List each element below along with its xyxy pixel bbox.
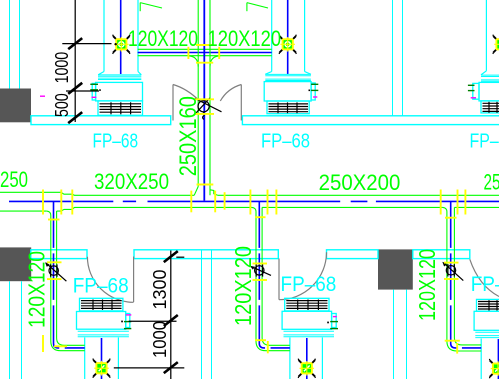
svg-text:1000: 1000 bbox=[150, 321, 170, 358]
wall bottom-right pair below column bbox=[394, 290, 407, 379]
FCU U4 discharge duct bbox=[85, 338, 119, 379]
door top double leaf left bbox=[173, 85, 200, 121]
dimension text 1300 bbox=[150, 270, 170, 310]
diffuser A6 bottom-right clipped bbox=[490, 359, 499, 378]
FCU U6 bottom-right coil bbox=[477, 299, 499, 311]
FCU U3 body bbox=[473, 82, 499, 113]
svg-text:1000: 1000 bbox=[52, 52, 72, 84]
FCU U4 bottom-left coil bbox=[80, 298, 123, 311]
svg-text:320X250: 320X250 bbox=[94, 169, 169, 194]
label FP-68 top 3 clipped bbox=[470, 129, 499, 152]
branch B2 center line bbox=[259, 201, 290, 348]
svg-text:120X120: 120X120 bbox=[414, 249, 440, 321]
label 120X120 rotated right bbox=[414, 249, 440, 321]
pipe crossing ticks yellow elbows bbox=[43, 335, 460, 354]
dimension ticks V1 bbox=[68, 38, 82, 123]
wall band bottom segment 4 bbox=[413, 250, 470, 259]
FCU U2 body bbox=[264, 82, 315, 114]
leader flag 1 bbox=[140, 3, 162, 12]
FCU U3 coil hatch bbox=[483, 102, 499, 113]
FCU U3 pipe stubs bbox=[468, 85, 476, 98]
FCU U3 plenum lines bbox=[481, 75, 499, 81]
label 320X250 bbox=[94, 169, 169, 194]
FCU U4 coil hatch bbox=[81, 300, 122, 311]
door top double leaf right bbox=[220, 85, 241, 121]
damper D2 on branch B1 bbox=[45, 262, 66, 281]
wall band top-right segment bbox=[242, 116, 499, 125]
diffuser A2 top-middle bbox=[279, 35, 296, 54]
wall band top-left segment bbox=[31, 116, 171, 125]
FCU U6 body bbox=[474, 311, 499, 330]
column C3 bottom-right bbox=[378, 249, 413, 289]
duct main center line bbox=[9, 200, 499, 202]
label 250 left bbox=[0, 167, 28, 192]
pipe crossing ticks yellow main duct branch 1 bbox=[43, 190, 72, 220]
diffuser A5 bottom-middle bbox=[298, 359, 315, 378]
leader flag 2 bbox=[247, 3, 268, 12]
pipe crossing ticks yellow riser junction bbox=[191, 185, 224, 213]
pipe crossing ticks yellow top junction bbox=[188, 45, 219, 63]
duct main lower bottom edge bbox=[0, 207, 499, 211]
FCU U5 pipe stubs bbox=[327, 317, 338, 329]
label 120X120 rotated middle bbox=[230, 246, 256, 326]
svg-text:120X120: 120X120 bbox=[128, 26, 198, 51]
label 120X120 second bbox=[208, 26, 282, 51]
FCU U4 plenum lines bbox=[78, 331, 129, 337]
FCU U6 coil hatch bbox=[478, 300, 499, 310]
svg-text:250X160: 250X160 bbox=[175, 96, 202, 176]
label FP-68 top 2 bbox=[261, 129, 310, 152]
dimension line V2 bbox=[114, 251, 185, 379]
stray magenta mark bbox=[40, 95, 45, 97]
FCU U4 body bbox=[77, 312, 130, 330]
FCU U1 plenum lines bbox=[98, 75, 141, 80]
svg-text:FP–68: FP–68 bbox=[471, 273, 499, 296]
svg-text:1300: 1300 bbox=[150, 270, 170, 310]
FCU U2 center line bbox=[287, 0, 289, 74]
wall mid-right top pair bbox=[393, 0, 403, 116]
wall band bottom segment 3 bbox=[327, 250, 379, 259]
damper D4 on branch B3 bbox=[442, 262, 463, 281]
label FP-68 bottom 2 bbox=[281, 273, 337, 296]
duct vertical riser 250X160 bbox=[188, 0, 221, 195]
svg-text:FP–68: FP–68 bbox=[261, 129, 310, 152]
duct main supply top horizontal bbox=[138, 49, 272, 55]
FCU U5 coil hatch bbox=[286, 300, 327, 311]
label 120X120 rotated left bbox=[24, 251, 50, 328]
FCU U2 plenum lines bbox=[265, 74, 311, 80]
FCU U1 coil hatch bbox=[100, 102, 142, 114]
FCU U1 center line bbox=[120, 0, 122, 74]
svg-text:120X120: 120X120 bbox=[230, 246, 256, 326]
svg-text:120X120: 120X120 bbox=[24, 251, 50, 328]
duct top center line bbox=[138, 52, 272, 54]
svg-text:FP–68: FP–68 bbox=[281, 273, 337, 296]
FCU U2 pipe stubs bbox=[309, 84, 319, 97]
FCU U6 discharge duct bbox=[480, 339, 482, 379]
svg-text:250: 250 bbox=[0, 167, 28, 192]
FCU U1 top-left duct riser bbox=[98, 0, 141, 75]
duct main lower top edge bbox=[0, 192, 499, 195]
svg-text:FP–68: FP–68 bbox=[73, 275, 129, 298]
damper D1 on riser bbox=[195, 98, 222, 119]
svg-text:25: 25 bbox=[484, 170, 499, 195]
diffuser A3 top-right clipped bbox=[493, 35, 499, 54]
dimension text 1000 upper bbox=[52, 52, 72, 84]
FCU U2 coil hatch bbox=[269, 102, 309, 113]
wall bottom middle vertical pair bbox=[202, 250, 212, 379]
branch B1 pipe bbox=[47, 211, 85, 351]
label 250X200 bbox=[319, 170, 401, 195]
FCU U1 body bbox=[92, 82, 142, 115]
label 120X120 first bbox=[128, 26, 198, 51]
dimension line V1 bbox=[62, 0, 111, 122]
FCU U6 plenum lines bbox=[475, 332, 499, 337]
svg-text:120X120: 120X120 bbox=[208, 26, 282, 51]
FCU U5 discharge duct bbox=[290, 338, 323, 379]
branch B1 center line bbox=[54, 201, 85, 348]
FCU U5 body bbox=[282, 311, 336, 329]
svg-text:500: 500 bbox=[52, 93, 72, 117]
pipe crossing ticks yellow main duct branch 2 bbox=[250, 190, 276, 218]
label FP-68 top 1 bbox=[93, 129, 139, 152]
column C1 top-left bbox=[0, 89, 31, 123]
branch B3 pipe bbox=[443, 207, 481, 351]
column C2 bottom-left bbox=[0, 247, 31, 281]
dimension ticks V2 bbox=[164, 251, 178, 373]
door bottom 2 bbox=[279, 252, 327, 299]
pipe crossing ticks yellow riser damper bbox=[194, 99, 214, 114]
duct vertical riser center line bbox=[203, 0, 205, 201]
diffuser A4 bottom-left bbox=[93, 359, 110, 378]
branch B3 center line bbox=[451, 201, 482, 348]
svg-text:250X200: 250X200 bbox=[319, 170, 401, 195]
label 250X160 rotated bbox=[175, 96, 202, 176]
dimension text 1000 lower bbox=[150, 321, 170, 358]
label 25 right clipped bbox=[484, 170, 499, 195]
FCU U1 pipe stubs bbox=[90, 84, 100, 97]
pipe crossing ticks yellow main duct branch 3 bbox=[441, 190, 466, 218]
door bottom 3 bbox=[470, 259, 499, 296]
wall band bottom segment 2 bbox=[134, 250, 278, 259]
damper D3 on branch B2 bbox=[250, 264, 271, 276]
FCU U2 top-middle duct riser bbox=[265, 0, 311, 74]
branch B2 pipe bbox=[252, 207, 290, 350]
svg-text:FP–68: FP–68 bbox=[93, 129, 139, 152]
dimension text 500 bbox=[52, 93, 72, 117]
FCU U5 plenum lines bbox=[284, 331, 335, 337]
FCU U3 top-right duct riser bbox=[481, 0, 486, 75]
wall left bottom pair bbox=[10, 281, 22, 379]
FCU U4 center line bbox=[101, 338, 103, 379]
FCU U5 bottom-middle coil bbox=[285, 298, 329, 311]
FCU U4 pipe stubs bbox=[121, 315, 131, 329]
diffuser A1 top-left bbox=[113, 35, 130, 54]
label FP-68 bottom 3 clipped bbox=[471, 273, 499, 296]
door bottom 1 bbox=[87, 257, 133, 303]
pipe crossing ticks yellow bottom dampers bbox=[47, 262, 459, 280]
wall left top pair bbox=[10, 0, 20, 89]
label FP-68 bottom 1 bbox=[73, 275, 129, 298]
svg-text:FP–68: FP–68 bbox=[470, 129, 499, 152]
FCU U5 center line bbox=[306, 338, 308, 379]
FCU U6 center line bbox=[497, 339, 499, 379]
wall band bottom segment 1 bbox=[31, 250, 87, 259]
